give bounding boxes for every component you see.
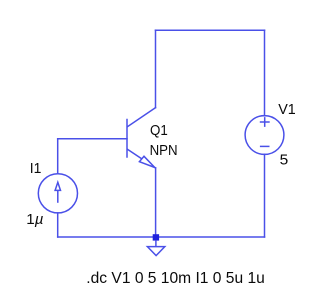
V1 minus sign [260,145,270,147]
wire: base lead to Q1 [58,138,127,140]
svg-text:NPN: NPN [150,142,178,159]
I1 arrow head [55,182,60,190]
wire: right lower (V1 bottom to ground rail) [264,154,266,237]
V1 circle body [245,116,284,155]
ground triangle [147,247,164,256]
wire: top (collector to V1+) [156,29,265,31]
ground [147,241,164,256]
wire: right upper (to V1 top) [264,30,266,116]
Q1 collector diagonal [128,108,156,127]
Q1 base bar [126,120,128,158]
Q1 emitter arrow [139,156,154,167]
junction node (emitter / ground rail) [153,234,159,240]
wire: left lower (I1 bottom to rail) [57,213,59,237]
I1 circle body [38,174,77,213]
I1 arrow shaft [57,190,59,203]
wire: collector lead of Q1 [155,30,157,108]
wire: emitter lead of Q1 to ground node [155,168,157,234]
svg-text:V1: V1 [278,101,296,118]
V1 plus sign [260,117,270,127]
svg-text:5: 5 [280,152,289,169]
Q1 emitter diagonal [128,149,156,168]
svg-text:Q1: Q1 [150,122,168,139]
svg-text:1µ: 1µ [26,211,43,228]
ground stub [155,241,157,247]
svg-text:I1: I1 [30,160,42,177]
current source I1 [38,174,77,213]
transistor Q1 (NPN) [127,108,156,168]
wire: bottom ground rail [58,236,265,238]
voltage source V1 [245,116,284,155]
svg-text:.dc V1 0 5 10m I1 0 5u 1u: .dc V1 0 5 10m I1 0 5u 1u [86,270,264,287]
wire: left upper (I1 top) [57,139,59,174]
